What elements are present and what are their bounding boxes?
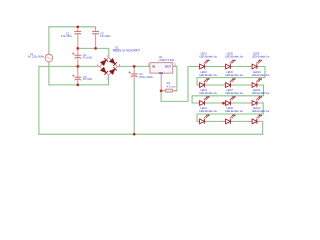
wire C2 down to bottom return <box>133 80 135 134</box>
wire LED row r3 segments <box>208 102 249 104</box>
wire ADJ node to LED feed <box>161 67 197 102</box>
svg-text:IN: IN <box>152 65 155 69</box>
wire V1 bottom to AC2 node <box>48 65 50 85</box>
svg-text:47u 100v: 47u 100v <box>83 56 93 59</box>
svg-text:LED-Emitter 1w: LED-Emitter 1w <box>199 109 217 113</box>
junction C4/C3 on DC- <box>76 65 79 68</box>
wire AC2 horizontal <box>49 77 109 85</box>
svg-text:3.3u 400v: 3.3u 400v <box>61 34 73 38</box>
junction C1/C4 node <box>76 47 79 50</box>
svg-text:47u 100v: 47u 100v <box>83 78 93 81</box>
LED LED10 <box>249 79 262 88</box>
capacitor C1 <box>74 27 81 49</box>
LED LED11 <box>249 97 262 106</box>
resistor R1 <box>161 89 177 92</box>
wire row3 right end <box>261 102 263 104</box>
bridge diode D1b (top to right) <box>109 58 117 66</box>
svg-text:AC 220v 50Hz: AC 220v 50Hz <box>28 55 45 59</box>
wire row2 right end <box>261 84 264 86</box>
lead C2 bottom <box>133 76 135 80</box>
junction row3 wire <box>222 102 225 105</box>
LED LED3 <box>197 97 210 106</box>
svg-text:LED-Emitter 1w: LED-Emitter 1w <box>199 73 217 77</box>
capacitor C3 <box>72 66 81 85</box>
junction ADJ/R1 node <box>160 89 163 92</box>
svg-text:3.3u 400v: 3.3u 400v <box>100 34 112 38</box>
junction C1 top <box>76 25 79 28</box>
junction C3 bottom <box>76 84 79 87</box>
capacitor C4 <box>72 48 81 66</box>
svg-text:LED-Emitter 1w: LED-Emitter 1w <box>252 91 270 95</box>
svg-text:LM317T-DG: LM317T-DG <box>159 58 175 62</box>
junction C5 bottom <box>94 47 97 50</box>
LED LED4 <box>197 115 210 124</box>
svg-text:LED-Emitter 1w: LED-Emitter 1w <box>252 73 270 77</box>
wire return row2 to row3 <box>192 85 263 103</box>
bridge diode D1c (left to bottom) <box>100 67 108 75</box>
LED LED9 <box>249 60 262 69</box>
svg-text:MB6S or 4x1n4007: MB6S or 4x1n4007 <box>113 49 141 53</box>
wire top AC line from V1 to C5 <box>49 26 96 28</box>
LED LED12 <box>249 115 262 124</box>
svg-text:470u 100v: 470u 100v <box>139 75 154 79</box>
wire DC- horizontal from left riser to bridge left <box>39 65 98 67</box>
junction C2 top <box>133 65 136 68</box>
junction C2 bottom <box>133 133 136 136</box>
wire row1 right end <box>261 66 265 68</box>
wire bridge DC+ to regulator IN <box>119 65 148 67</box>
svg-text:OUT: OUT <box>165 65 171 69</box>
svg-text:LED-Emitter 1w: LED-Emitter 1w <box>225 54 243 58</box>
wire bottom return <box>39 133 263 135</box>
wire LED row r2 segments <box>208 84 249 86</box>
LED LED6 <box>223 79 236 88</box>
LED LED8 <box>223 115 236 124</box>
voltage source V1 AC 220v 50Hz <box>45 51 53 65</box>
svg-text:LED-Emitter 1w: LED-Emitter 1w <box>225 91 243 95</box>
svg-text:LED-Emitter 1w: LED-Emitter 1w <box>225 109 243 113</box>
bridge rectifier D1 leads/diamond <box>98 55 120 77</box>
svg-text:ADJ: ADJ <box>159 72 164 75</box>
LED LED7 <box>223 97 236 106</box>
wire left return riser <box>38 66 40 134</box>
wire return row1 to row2 <box>197 67 265 85</box>
svg-text:LED-Emitter 1w: LED-Emitter 1w <box>199 91 217 95</box>
LED LED1 <box>197 60 210 69</box>
svg-text:4.3 om: 4.3 om <box>166 84 175 88</box>
wire V1 top vertical <box>48 27 50 52</box>
op-amp/regulator U1 LM317 body <box>148 63 177 91</box>
bridge diode D1a (left to top) <box>100 58 108 66</box>
svg-text:LED-Emitter 1w: LED-Emitter 1w <box>252 54 270 58</box>
wire LED row r1 segments <box>208 66 249 68</box>
wire OUT pin down to R1 <box>175 66 177 90</box>
wire node between droppers and bridge AC1 <box>78 48 109 55</box>
wire return row3 to row4 <box>197 103 263 121</box>
LED LED2 <box>197 79 210 88</box>
bridge diode D1d (bottom to right) <box>109 67 117 75</box>
svg-text:LED-Emitter 1w: LED-Emitter 1w <box>199 54 217 58</box>
svg-text:LED-Emitter 1w: LED-Emitter 1w <box>225 73 243 77</box>
wire LED row r4 segments <box>208 120 249 122</box>
capacitor C5 <box>92 27 99 49</box>
wire row4 right end to bottom return <box>261 121 263 134</box>
svg-text:LED-Emitter 1w: LED-Emitter 1w <box>252 109 270 113</box>
LED LED5 <box>223 60 236 69</box>
capacitor C2 <box>128 66 137 77</box>
